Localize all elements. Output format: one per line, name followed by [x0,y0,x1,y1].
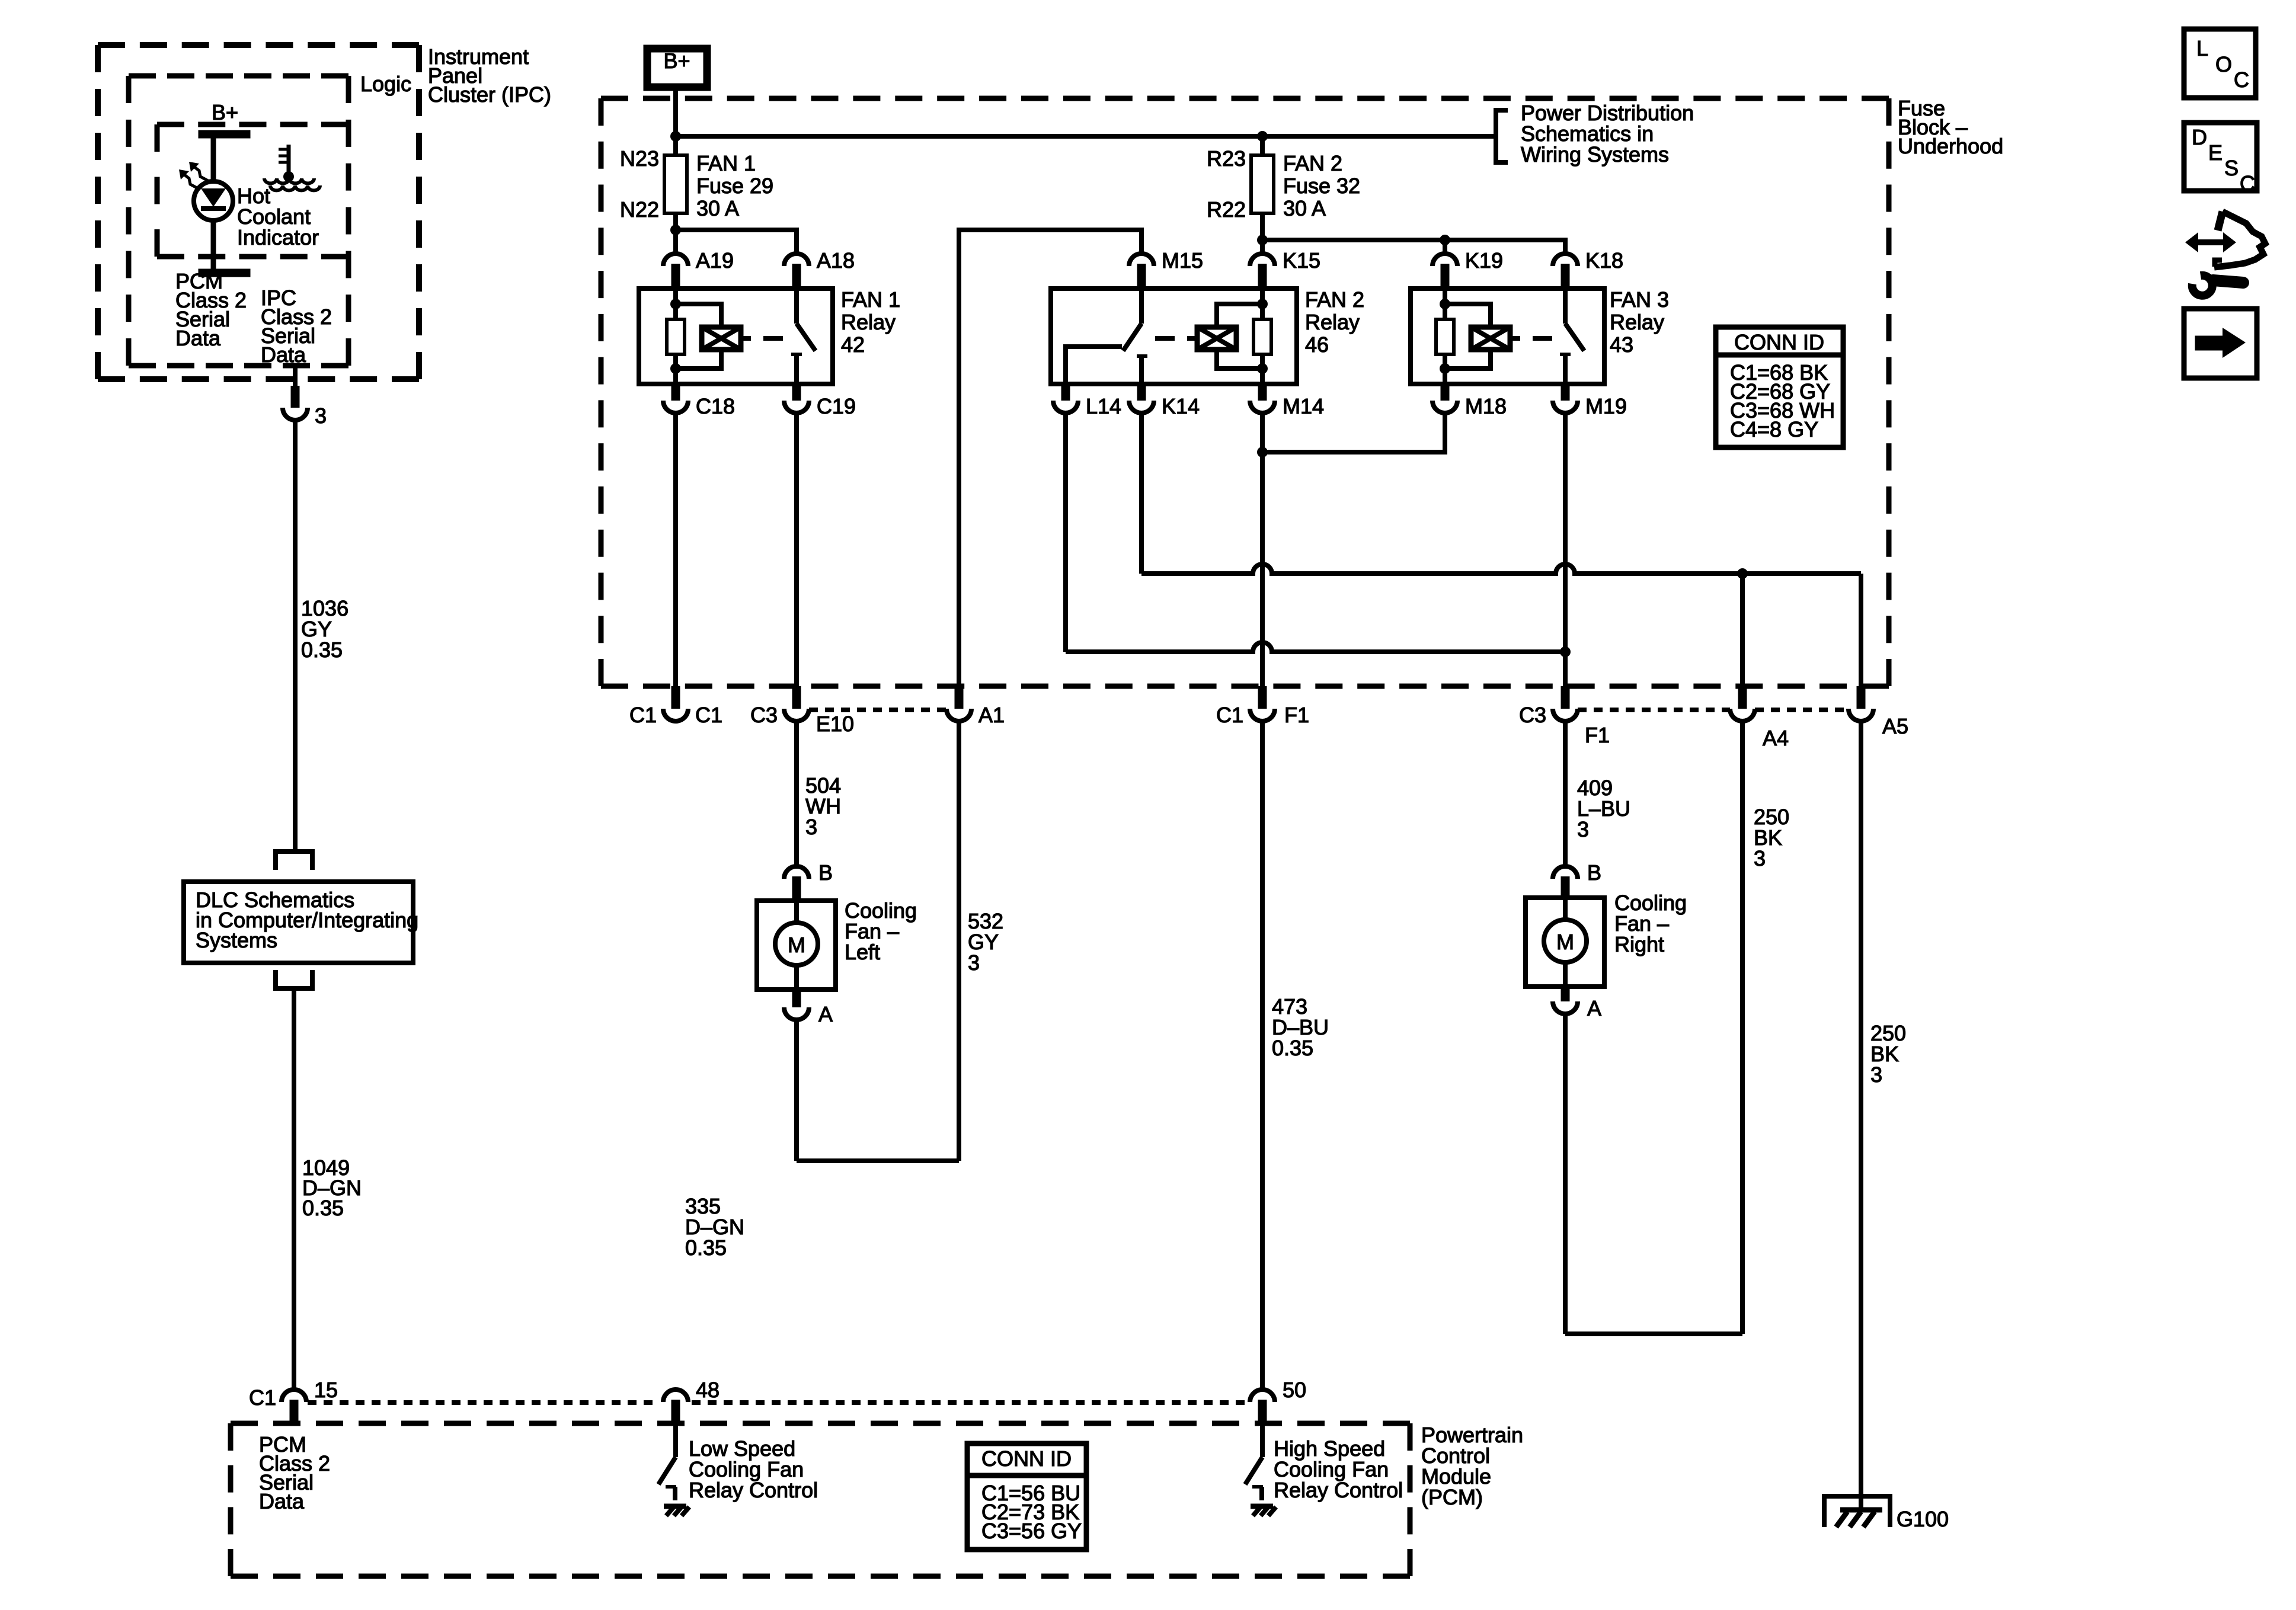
svg-text:CONN ID: CONN ID [981,1446,1072,1471]
svg-text:C3: C3 [1519,703,1546,727]
svg-text:C19: C19 [817,394,856,418]
svg-text:C: C [2240,171,2255,196]
svg-text:Relay: Relay [1305,310,1360,334]
svg-text:3: 3 [1870,1062,1882,1087]
svg-text:FAN 1: FAN 1 [841,287,900,312]
svg-text:K18: K18 [1585,248,1623,273]
svg-text:Wiring Systems: Wiring Systems [1521,142,1669,167]
svg-text:Fuse 32: Fuse 32 [1283,174,1360,198]
svg-text:M14: M14 [1283,394,1324,418]
svg-text:42: 42 [841,332,865,357]
svg-text:0.35: 0.35 [685,1235,727,1260]
svg-text:L14: L14 [1086,394,1121,418]
svg-text:0.35: 0.35 [301,638,343,662]
svg-text:FAN 1: FAN 1 [696,151,756,175]
svg-text:B+: B+ [663,49,690,73]
svg-text:30 A: 30 A [696,196,739,220]
svg-text:A19: A19 [696,248,734,273]
svg-text:M18: M18 [1465,394,1507,418]
svg-text:D: D [2192,125,2207,149]
svg-text:S: S [2224,156,2239,180]
svg-text:3: 3 [1577,817,1589,841]
svg-text:R22: R22 [1207,197,1246,222]
svg-text:Data: Data [259,1489,305,1513]
svg-text:M19: M19 [1585,394,1627,418]
svg-text:15: 15 [314,1378,338,1402]
svg-text:Underhood: Underhood [1898,134,2003,158]
svg-text:43: 43 [1610,332,1633,357]
svg-text:A18: A18 [817,248,855,273]
svg-text:M: M [1556,930,1574,954]
svg-text:48: 48 [696,1378,720,1402]
svg-text:50: 50 [1283,1378,1306,1402]
svg-text:(PCM): (PCM) [1421,1485,1483,1509]
svg-text:Cluster (IPC): Cluster (IPC) [428,82,551,107]
svg-text:B: B [818,860,833,885]
svg-text:K19: K19 [1465,248,1503,273]
svg-text:Systems: Systems [196,928,277,952]
svg-text:C1: C1 [629,703,657,727]
svg-text:Data: Data [175,326,221,350]
svg-text:Relay: Relay [841,310,896,334]
svg-text:C3: C3 [750,703,778,727]
svg-text:A5: A5 [1882,714,1908,738]
svg-text:B: B [1587,860,1601,885]
svg-text:FAN 2: FAN 2 [1283,151,1342,175]
svg-text:FAN 3: FAN 3 [1610,287,1669,312]
svg-text:L: L [2196,36,2208,60]
svg-text:3: 3 [805,815,817,839]
svg-text:Relay Control: Relay Control [689,1478,818,1502]
svg-text:Indicator: Indicator [237,225,319,249]
svg-text:E: E [2208,140,2223,165]
svg-text:C: C [2234,68,2249,92]
svg-text:C1: C1 [1216,703,1243,727]
svg-text:N22: N22 [620,197,659,222]
svg-text:Logic: Logic [360,72,411,96]
svg-text:M: M [788,933,805,957]
svg-text:Fuse 29: Fuse 29 [696,174,773,198]
svg-text:3: 3 [1754,846,1766,870]
svg-text:CONN ID: CONN ID [1734,330,1824,354]
svg-text:Right: Right [1614,932,1664,956]
svg-text:C18: C18 [696,394,735,418]
svg-text:A: A [1587,996,1601,1020]
svg-text:Relay Control: Relay Control [1274,1478,1403,1502]
svg-text:A4: A4 [1763,726,1789,750]
svg-text:46: 46 [1305,332,1329,357]
svg-text:Data: Data [261,343,306,367]
svg-text:B+: B+ [212,100,238,124]
svg-text:A1: A1 [978,703,1005,727]
svg-text:K14: K14 [1162,394,1200,418]
svg-text:FAN 2: FAN 2 [1305,287,1364,312]
svg-text:E10: E10 [816,712,854,736]
svg-text:R23: R23 [1207,146,1246,171]
svg-text:F1: F1 [1284,703,1309,727]
svg-text:3: 3 [315,404,327,428]
svg-text:N23: N23 [620,146,659,171]
svg-text:C3=56 GY: C3=56 GY [981,1519,1082,1543]
svg-text:Left: Left [845,940,880,964]
svg-text:30 A: 30 A [1283,196,1326,220]
svg-text:C1: C1 [695,703,722,727]
svg-text:3: 3 [968,950,980,975]
svg-text:0.35: 0.35 [302,1196,344,1220]
svg-text:O: O [2215,52,2232,76]
svg-text:F1: F1 [1585,723,1610,747]
svg-text:C1: C1 [249,1385,276,1410]
svg-text:A: A [818,1002,833,1026]
svg-text:Relay: Relay [1610,310,1664,334]
svg-text:M15: M15 [1162,248,1203,273]
svg-text:K15: K15 [1283,248,1320,273]
svg-text:C4=8 GY: C4=8 GY [1730,417,1818,441]
svg-text:0.35: 0.35 [1272,1036,1313,1060]
svg-text:G100: G100 [1897,1507,1949,1531]
